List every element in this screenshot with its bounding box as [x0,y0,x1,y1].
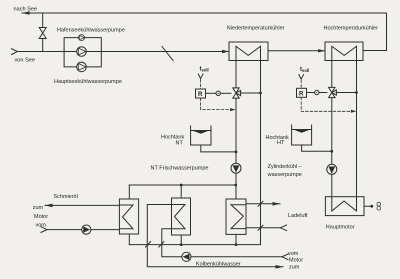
wire: sea line NT to HT [268,50,325,52]
svg-text:Ladeluft: Ladeluft [288,213,308,219]
arrow Ladeluft out [273,202,281,206]
wire: Kolbenkühlwasser return (vom Motor to box B bottom) [162,229,283,257]
cooler box A Schmierölkühler [119,199,138,234]
wire: Ladeluft in [246,227,281,229]
arrow into HT cooler [318,49,325,52]
pump P3 main sea water pump (lower) [77,62,87,72]
tank T1 Hochtank NT [191,126,211,145]
wire: Ladeluft out [246,203,280,205]
svg-text:Hauptmotor: Hauptmotor [326,225,355,231]
HT cooler internal M [332,46,357,55]
svg-text:NT: NT [176,141,184,147]
svg-text:Zylinderkühl –: Zylinderkühl – [268,164,303,170]
pump P6 Schmierölpumpe [82,225,91,234]
svg-text:tsoll: tsoll [200,66,209,72]
wire: actuator to valve NT [221,92,231,94]
wire: NT left leg valve to box C top [235,98,237,199]
node: header / pump line [234,184,237,187]
svg-text:HT: HT [277,140,285,146]
engine box Hauptmotor [325,197,364,216]
svg-text:Kolbenkühlwasser: Kolbenkühlwasser [196,261,241,267]
arrow Kolben zum Motor [276,265,284,269]
valve V1 riser wire [42,13,44,52]
NT cooler box (Niedertemperaturkühler) [229,42,268,61]
R1 to actuator link [206,92,216,94]
wire: HT cooler left leg down to engine [331,46,333,87]
svg-text:vom: vom [288,251,299,257]
wire: NT cooler left leg (cold outlet down to pump) [235,46,237,88]
svg-text:Hauptseekühlwasserpumpe: Hauptseekühlwasserpumpe [54,79,122,85]
svg-text:wasserpumpe: wasserpumpe [267,172,302,178]
wire: box C bottom stub [235,234,237,244]
svg-text:Motor: Motor [34,214,48,220]
open arrow Kolben vom Motor [282,254,288,260]
svg-text:vom: vom [36,223,47,229]
dashed setpoint line NT [200,80,202,90]
wire: NT cooler right leg (return riser) [129,46,260,244]
pump P7 Kolbenkühlwasserpumpe [182,252,191,261]
wire: HT cooler right leg down to engine [356,46,358,211]
pump P1 harbour sea water pump (small) [79,35,85,41]
break slash on suction line [162,47,173,61]
t_soll arrow HT (open V) [299,75,304,80]
jump mark at 161.8/244.6 [159,242,164,247]
node: box B bottom junction [180,243,183,246]
tank T2 Hochtank HT [292,125,312,145]
svg-text:nach See: nach See [14,6,38,12]
node: HT bypass junction [355,91,358,94]
open arrow Schmieröl vom Motor [41,227,47,233]
cooler box B Kolbenkühler [172,198,191,235]
wire: HT bypass valve to right leg [336,92,357,94]
wire: Kolbenkühlwasser supply (box B top to zum Motor) [147,205,283,267]
wire: tank NT to pipe [201,145,236,152]
svg-text:Hafenseekühlwasserpumpe: Hafenseekühlwasserpumpe [57,28,125,34]
t_soll arrow NT (open V) [198,74,203,79]
svg-text:zum: zum [289,264,300,270]
HT cooler box (Hochtemperaturkühler) [325,42,363,61]
arrow to sea (solid, left) [22,11,30,15]
coil in box C [231,205,246,229]
open arrow von See [12,49,18,55]
svg-text:R: R [299,90,304,97]
actuator circle HT [315,90,319,94]
wire: Schmieröl out (zum Motor) [45,204,119,206]
wire: box A top stub [128,185,130,199]
R2 to actuator link [307,92,315,94]
pump P4 NT Frischwasserpumpe [231,163,241,173]
3-way valve NT [233,88,241,98]
wire: actuator to valve HT [319,92,326,94]
pump P5 Zylinderkühlwasserpumpe [327,164,337,174]
propeller symbol [377,202,381,206]
pump P2 main sea water pump (on main line) [77,47,87,57]
open arrow Ladeluft in [281,225,287,231]
svg-text:Schmieröl: Schmieröl [53,194,77,200]
wire: sea water suction line (von See) [17,51,229,53]
arrow Schmieröl zum Motor [45,204,53,208]
node: propeller shaft dot [370,205,373,208]
jump mark Ladeluft in over riser [258,225,263,230]
wire: Schmieröl in (vom Motor) [47,229,120,231]
coil in box A [119,205,133,229]
dashed sensor line NT [201,98,231,110]
wire: NT bypass valve to right leg [240,92,260,94]
wire: box B bottom stub [180,235,182,245]
sensor arrowhead NT [230,108,236,111]
node: bypass junction [259,92,262,95]
wire: box A bottom stub [128,234,130,245]
wire: box B top stub [180,185,182,198]
svg-text:R: R [198,91,203,98]
svg-text:NT Frischwasserpumpe: NT Frischwasserpumpe [151,165,209,171]
3-way valve HT [329,87,337,97]
svg-text:von See: von See [15,58,36,64]
arrow into NT cooler [222,50,229,53]
coil in box B [172,205,186,229]
wire: sea water return line (nach See) [22,13,387,51]
valve V1 (gate valve, bowtie) [39,28,46,39]
svg-text:Motor: Motor [289,257,303,263]
node: tank NT junction [235,151,238,154]
sensor arrowhead HT [351,110,357,113]
wire: HT left leg valve to engine [331,98,333,211]
wire: NT supply header [129,184,235,186]
wire: tank HT to pipe [302,145,332,151]
NT cooler internal M [236,46,261,55]
svg-text:Hochtemperaturkühler: Hochtemperaturkühler [324,26,379,32]
node: tank HT junction [330,150,333,153]
jump mark at 148.6/244.6 [146,242,151,247]
jump mark Ladeluft out over riser [258,201,263,206]
dashed sensor line HT [301,97,352,111]
actuator circle NT [216,91,220,95]
svg-text:Hochtank: Hochtank [161,134,184,140]
engine tent symbol [332,201,357,211]
node: box C bottom junction [235,243,238,246]
cooler box C Ladeluftkühler [226,199,246,234]
node: header / box B riser [180,184,183,187]
svg-text:zum: zum [33,205,44,211]
pump bank frame [64,38,101,52]
svg-text:Niedertemperaturkühler: Niedertemperaturkühler [227,26,285,32]
controller R1 box [196,89,206,98]
wire: engine to propeller [364,205,372,207]
dashed setpoint line HT [300,80,302,88]
svg-text:tsoll: tsoll [300,67,309,73]
controller R2 box [297,88,307,97]
